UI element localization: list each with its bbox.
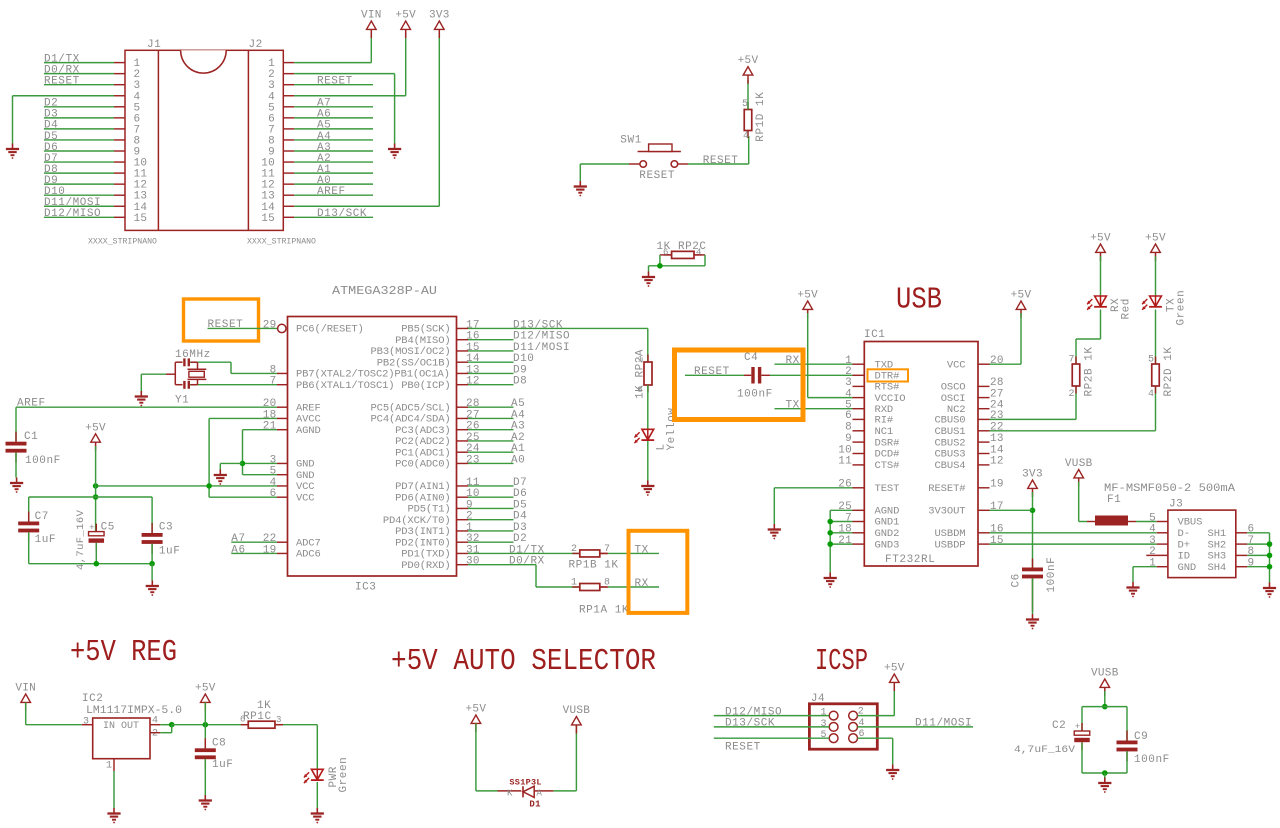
svg-text:+5V: +5V — [797, 290, 818, 302]
svg-text:4: 4 — [696, 248, 701, 258]
svg-text:21: 21 — [263, 421, 277, 433]
svg-text:ATMEGA328P-AU: ATMEGA328P-AU — [332, 285, 437, 298]
svg-text:+5V AUTO SELECTOR: +5V AUTO SELECTOR — [391, 644, 656, 679]
svg-text:A6: A6 — [231, 544, 245, 556]
svg-text:CBUS2: CBUS2 — [934, 437, 965, 449]
svg-text:RI#: RI# — [875, 415, 894, 427]
svg-text:AVCC: AVCC — [296, 414, 321, 426]
svg-text:PC4(ADC4/SDA): PC4(ADC4/SDA) — [371, 414, 451, 426]
svg-text:ICSP: ICSP — [815, 644, 868, 679]
svg-text:PB5(SCK): PB5(SCK) — [401, 324, 450, 336]
svg-text:22: 22 — [263, 533, 277, 545]
svg-text:2: 2 — [571, 544, 577, 555]
svg-text:+5V: +5V — [195, 683, 216, 695]
svg-text:1: 1 — [638, 355, 643, 365]
svg-text:100nF: 100nF — [1046, 557, 1058, 593]
svg-text:RP1C: RP1C — [243, 711, 272, 723]
svg-text:PD6(AIN0): PD6(AIN0) — [395, 492, 450, 504]
svg-text:A7: A7 — [231, 533, 245, 545]
svg-text:C9: C9 — [1134, 731, 1148, 743]
svg-text:IC2: IC2 — [82, 693, 103, 705]
svg-text:D12/MISO: D12/MISO — [44, 208, 101, 220]
svg-text:D8: D8 — [513, 376, 527, 388]
svg-text:CBUS0: CBUS0 — [934, 415, 965, 427]
svg-text:D-: D- — [1178, 528, 1190, 540]
svg-text:1: 1 — [821, 708, 827, 719]
svg-text:D7: D7 — [513, 477, 527, 489]
svg-text:10: 10 — [838, 444, 852, 456]
svg-text:J2: J2 — [249, 39, 263, 51]
svg-text:26: 26 — [466, 421, 480, 433]
svg-text:6: 6 — [240, 715, 245, 725]
svg-text:7: 7 — [1248, 535, 1255, 547]
svg-text:A5: A5 — [511, 398, 525, 410]
svg-text:RESET: RESET — [208, 319, 244, 331]
svg-text:8: 8 — [1248, 546, 1255, 558]
svg-text:RESET: RESET — [694, 366, 730, 378]
svg-text:+5V: +5V — [395, 10, 416, 22]
svg-text:9: 9 — [466, 499, 473, 511]
svg-text:3V3: 3V3 — [1022, 469, 1043, 481]
svg-text:8: 8 — [270, 364, 277, 376]
svg-text:19: 19 — [263, 544, 277, 556]
svg-text:5: 5 — [742, 99, 748, 110]
svg-text:PC6(/RESET): PC6(/RESET) — [296, 324, 364, 336]
svg-text:1: 1 — [466, 522, 473, 534]
svg-text:20: 20 — [263, 398, 277, 410]
svg-text:SH2: SH2 — [1208, 539, 1227, 551]
svg-text:5: 5 — [1149, 512, 1156, 524]
svg-text:+: + — [89, 523, 94, 533]
svg-text:D13/SCK: D13/SCK — [725, 718, 775, 730]
svg-text:D1: D1 — [529, 799, 541, 809]
svg-text:28: 28 — [990, 377, 1004, 389]
svg-text:RP1D 1K: RP1D 1K — [755, 92, 767, 142]
svg-text:16: 16 — [990, 524, 1004, 536]
svg-text:RP1A 1K: RP1A 1K — [579, 605, 629, 617]
svg-text:+5V: +5V — [1145, 233, 1166, 245]
svg-text:D+: D+ — [1178, 539, 1190, 551]
svg-text:PB4(MISO): PB4(MISO) — [395, 335, 450, 347]
svg-text:8: 8 — [638, 385, 643, 395]
svg-text:3V3OUT: 3V3OUT — [928, 506, 965, 518]
svg-text:RP1B 1K: RP1B 1K — [569, 560, 619, 572]
svg-text:RESET#: RESET# — [928, 483, 965, 495]
svg-text:PD3(INT1): PD3(INT1) — [395, 526, 450, 538]
svg-text:4: 4 — [270, 477, 277, 489]
svg-text:PC5(ADC5/SCL): PC5(ADC5/SCL) — [371, 402, 451, 414]
svg-text:ID: ID — [1178, 551, 1190, 563]
svg-text:DSR#: DSR# — [875, 437, 900, 449]
svg-text:4: 4 — [743, 131, 749, 142]
svg-text:J1: J1 — [147, 39, 161, 51]
svg-text:RESET: RESET — [703, 155, 739, 167]
svg-text:TX: TX — [635, 544, 649, 556]
svg-text:24: 24 — [466, 443, 480, 455]
svg-text:VIN: VIN — [361, 10, 382, 22]
svg-text:7: 7 — [604, 544, 610, 555]
svg-text:4: 4 — [1149, 524, 1156, 536]
svg-text:D0/RX: D0/RX — [509, 556, 545, 568]
svg-text:USBDP: USBDP — [934, 539, 965, 551]
svg-text:USB: USB — [896, 283, 942, 318]
svg-text:21: 21 — [838, 535, 852, 547]
svg-text:D13/SCK: D13/SCK — [513, 319, 563, 331]
svg-text:F1: F1 — [1107, 494, 1121, 506]
svg-text:J4: J4 — [811, 693, 825, 705]
svg-text:A3: A3 — [511, 421, 525, 433]
svg-text:1: 1 — [106, 761, 112, 772]
svg-text:D10: D10 — [513, 353, 534, 365]
svg-text:C6: C6 — [1011, 573, 1023, 587]
svg-text:31: 31 — [466, 544, 480, 556]
svg-text:Y1: Y1 — [175, 395, 189, 407]
svg-text:13: 13 — [990, 433, 1004, 445]
svg-text:PD1(TXD): PD1(TXD) — [401, 549, 450, 561]
svg-text:3: 3 — [83, 717, 89, 728]
svg-text:DCD#: DCD# — [875, 449, 900, 461]
svg-text:5: 5 — [270, 466, 277, 478]
svg-text:D6: D6 — [513, 488, 527, 500]
svg-text:+5V: +5V — [884, 663, 905, 675]
svg-text:PD5(T1): PD5(T1) — [407, 504, 450, 516]
svg-text:6: 6 — [663, 248, 668, 258]
svg-text:D2: D2 — [513, 533, 527, 545]
svg-text:IN: IN — [103, 721, 115, 732]
svg-text:USBDM: USBDM — [934, 528, 965, 540]
svg-text:2: 2 — [466, 511, 473, 523]
svg-text:26: 26 — [838, 479, 852, 491]
svg-text:17: 17 — [466, 319, 480, 331]
svg-text:PD4(XCK/T0): PD4(XCK/T0) — [383, 515, 451, 527]
svg-text:K: K — [507, 789, 513, 799]
svg-text:6: 6 — [270, 488, 277, 500]
svg-text:OSCO: OSCO — [941, 382, 966, 394]
svg-text:D13/SCK: D13/SCK — [317, 208, 367, 220]
svg-text:CBUS3: CBUS3 — [934, 449, 965, 461]
svg-text:2: 2 — [1068, 389, 1074, 400]
svg-text:CBUS1: CBUS1 — [934, 426, 965, 438]
svg-text:J3: J3 — [1169, 499, 1183, 511]
svg-text:XXXX_STRIPNANO: XXXX_STRIPNANO — [88, 237, 157, 247]
svg-text:RESET: RESET — [44, 76, 80, 88]
svg-text:13: 13 — [466, 364, 480, 376]
svg-text:RX: RX — [786, 355, 800, 367]
svg-text:7: 7 — [270, 376, 277, 388]
svg-text:CBUS4: CBUS4 — [934, 460, 965, 472]
svg-text:D3: D3 — [513, 522, 527, 534]
svg-text:3V3: 3V3 — [429, 10, 450, 22]
svg-text:4: 4 — [1148, 389, 1154, 400]
svg-text:3: 3 — [276, 715, 281, 725]
svg-text:100nF: 100nF — [1134, 754, 1170, 766]
svg-text:9: 9 — [845, 433, 852, 445]
svg-text:D12/MISO: D12/MISO — [513, 331, 570, 343]
svg-text:VIN: VIN — [15, 683, 36, 695]
svg-text:A: A — [537, 789, 543, 799]
svg-text:MF-MSMF050-2 500mA: MF-MSMF050-2 500mA — [1104, 483, 1235, 495]
svg-text:C1: C1 — [24, 431, 38, 443]
svg-text:VCC: VCC — [947, 359, 966, 371]
svg-text:RESET: RESET — [317, 76, 353, 88]
svg-text:30: 30 — [466, 556, 480, 568]
svg-text:1uF: 1uF — [159, 546, 180, 558]
svg-text:IC1: IC1 — [864, 329, 885, 341]
svg-text:VCC: VCC — [296, 492, 314, 504]
svg-text:GND1: GND1 — [875, 517, 900, 529]
svg-text:D12/MISO: D12/MISO — [725, 706, 782, 718]
svg-text:A2: A2 — [511, 432, 525, 444]
svg-text:17: 17 — [990, 501, 1004, 513]
svg-text:D5: D5 — [513, 499, 527, 511]
svg-text:VUSB: VUSB — [1091, 668, 1119, 680]
svg-text:C2: C2 — [1052, 720, 1066, 732]
svg-text:PB0(ICP): PB0(ICP) — [401, 380, 450, 392]
svg-text:SS1P3L: SS1P3L — [509, 777, 541, 787]
svg-text:GND2: GND2 — [875, 528, 900, 540]
svg-text:RESET: RESET — [725, 741, 761, 753]
svg-text:NC1: NC1 — [875, 426, 894, 438]
svg-text:9: 9 — [1248, 558, 1255, 570]
svg-text:10: 10 — [466, 488, 480, 500]
svg-text:PC0(ADC0): PC0(ADC0) — [395, 459, 450, 471]
svg-text:19: 19 — [990, 479, 1004, 491]
svg-text:A0: A0 — [511, 454, 525, 466]
svg-text:AGND: AGND — [296, 425, 321, 437]
svg-text:TEST: TEST — [875, 483, 900, 495]
svg-text:CTS#: CTS# — [875, 460, 900, 472]
svg-text:GND3: GND3 — [875, 539, 900, 551]
svg-text:SH3: SH3 — [1208, 551, 1227, 563]
svg-text:PD2(INT0): PD2(INT0) — [395, 537, 450, 549]
svg-text:100nF: 100nF — [25, 455, 61, 467]
svg-text:29: 29 — [263, 319, 277, 331]
svg-text:1: 1 — [571, 577, 577, 588]
svg-text:+: + — [1075, 722, 1080, 732]
svg-text:PB2(SS/OC1B): PB2(SS/OC1B) — [377, 357, 451, 369]
svg-text:AREF: AREF — [317, 186, 346, 198]
svg-text:7: 7 — [1068, 354, 1074, 365]
svg-text:VUSB: VUSB — [1065, 458, 1093, 470]
svg-text:PB6(XTAL1/TOSC1): PB6(XTAL1/TOSC1) — [296, 380, 394, 392]
svg-text:PC3(ADC3): PC3(ADC3) — [395, 425, 450, 437]
svg-text:2: 2 — [1149, 546, 1156, 558]
svg-text:D11/MOSI: D11/MOSI — [513, 342, 570, 354]
svg-text:C4: C4 — [744, 352, 758, 364]
svg-text:AGND: AGND — [875, 506, 900, 518]
svg-text:+5V REG: +5V REG — [70, 635, 177, 670]
svg-text:3: 3 — [270, 454, 277, 466]
svg-text:25: 25 — [838, 501, 852, 513]
svg-text:6: 6 — [1248, 524, 1255, 536]
svg-text:18: 18 — [263, 409, 277, 421]
svg-text:GND: GND — [1178, 562, 1197, 574]
svg-text:18: 18 — [838, 524, 852, 536]
svg-text:RESET: RESET — [639, 170, 675, 182]
svg-text:15: 15 — [134, 213, 148, 225]
svg-text:PD0(RXD): PD0(RXD) — [401, 560, 450, 572]
svg-text:5: 5 — [1148, 354, 1154, 365]
svg-text:25: 25 — [466, 432, 480, 444]
svg-text:D1/TX: D1/TX — [509, 544, 545, 556]
svg-text:SH4: SH4 — [1208, 562, 1227, 574]
svg-text:16MHz: 16MHz — [175, 349, 211, 361]
svg-text:4,7uF_16V: 4,7uF_16V — [1014, 744, 1076, 756]
svg-text:VCC: VCC — [296, 481, 314, 493]
svg-text:D11/MOSI: D11/MOSI — [915, 718, 972, 730]
svg-text:+5V: +5V — [85, 422, 106, 434]
svg-text:C8: C8 — [212, 738, 226, 750]
svg-text:GND: GND — [296, 470, 314, 482]
svg-text:1: 1 — [1149, 558, 1156, 570]
svg-text:A1: A1 — [511, 443, 525, 455]
svg-text:7: 7 — [845, 512, 852, 524]
svg-text:VBUS: VBUS — [1178, 517, 1203, 529]
svg-text:15: 15 — [990, 535, 1004, 547]
svg-text:FT232RL: FT232RL — [885, 554, 935, 566]
svg-text:C5: C5 — [101, 522, 115, 534]
svg-text:RTS#: RTS# — [875, 382, 900, 394]
svg-text:RP2D 1K: RP2D 1K — [1163, 346, 1175, 396]
svg-text:15: 15 — [261, 213, 275, 225]
svg-text:PD7(AIN1): PD7(AIN1) — [395, 481, 450, 493]
svg-text:GND: GND — [296, 459, 314, 471]
svg-text:1uF: 1uF — [212, 759, 233, 771]
svg-text:D9: D9 — [513, 364, 527, 376]
svg-text:Green: Green — [1176, 290, 1188, 326]
svg-text:32: 32 — [466, 533, 480, 545]
svg-text:Red: Red — [1121, 298, 1133, 319]
svg-text:VUSB: VUSB — [563, 705, 591, 717]
svg-text:PC2(ADC2): PC2(ADC2) — [395, 436, 450, 448]
svg-text:100nF: 100nF — [737, 389, 773, 401]
svg-text:2: 2 — [152, 729, 158, 740]
svg-text:12: 12 — [466, 376, 480, 388]
svg-text:3: 3 — [821, 719, 827, 730]
svg-text:+5V: +5V — [1090, 233, 1111, 245]
svg-text:+5V: +5V — [466, 704, 487, 716]
svg-text:4,7uF_16V: 4,7uF_16V — [75, 509, 87, 570]
svg-text:C3: C3 — [159, 522, 173, 534]
svg-text:28: 28 — [466, 398, 480, 410]
svg-text:AREF: AREF — [17, 398, 46, 410]
svg-text:8: 8 — [845, 422, 852, 434]
svg-text:22: 22 — [990, 422, 1004, 434]
svg-text:8: 8 — [604, 577, 610, 588]
svg-text:6: 6 — [845, 410, 852, 422]
svg-text:23: 23 — [466, 454, 480, 466]
svg-text:D4: D4 — [513, 511, 527, 523]
svg-text:11: 11 — [838, 456, 852, 468]
svg-text:LM1117IMPX-5.0: LM1117IMPX-5.0 — [86, 705, 182, 717]
svg-text:16: 16 — [466, 331, 480, 343]
svg-text:3: 3 — [1149, 535, 1156, 547]
svg-text:Green: Green — [338, 757, 350, 793]
svg-text:11: 11 — [466, 477, 480, 489]
svg-text:ADC6: ADC6 — [296, 549, 321, 561]
svg-text:RX: RX — [635, 578, 649, 590]
svg-text:+5V: +5V — [1011, 290, 1032, 302]
svg-text:AREF: AREF — [296, 402, 321, 414]
svg-text:ADC7: ADC7 — [296, 537, 321, 549]
svg-text:XXXX_STRIPNANO: XXXX_STRIPNANO — [247, 237, 316, 247]
svg-text:12: 12 — [990, 456, 1004, 468]
svg-text:OUT: OUT — [121, 721, 139, 732]
svg-text:SW1: SW1 — [620, 135, 641, 147]
svg-text:TX: TX — [786, 399, 800, 411]
svg-text:SH1: SH1 — [1208, 528, 1227, 540]
svg-text:RP2B 1K: RP2B 1K — [1084, 346, 1096, 396]
svg-text:PC1(ADC1): PC1(ADC1) — [395, 447, 450, 459]
svg-text:1uF: 1uF — [35, 534, 56, 546]
svg-text:5: 5 — [821, 730, 827, 741]
svg-text:23: 23 — [990, 410, 1004, 422]
svg-text:14: 14 — [990, 444, 1004, 456]
svg-text:+5V: +5V — [738, 55, 759, 67]
svg-text:15: 15 — [466, 342, 480, 354]
svg-text:14: 14 — [466, 353, 480, 365]
svg-text:PB7(XTAL2/TOSC2)PB1(OC1A): PB7(XTAL2/TOSC2)PB1(OC1A) — [296, 369, 450, 381]
svg-text:C7: C7 — [35, 511, 49, 523]
svg-text:20: 20 — [990, 355, 1004, 367]
svg-text:3: 3 — [845, 377, 852, 389]
svg-text:27: 27 — [466, 409, 480, 421]
svg-text:IC3: IC3 — [355, 582, 376, 594]
svg-text:PB3(MOSI/OC2): PB3(MOSI/OC2) — [371, 346, 451, 358]
svg-text:A4: A4 — [511, 409, 525, 421]
